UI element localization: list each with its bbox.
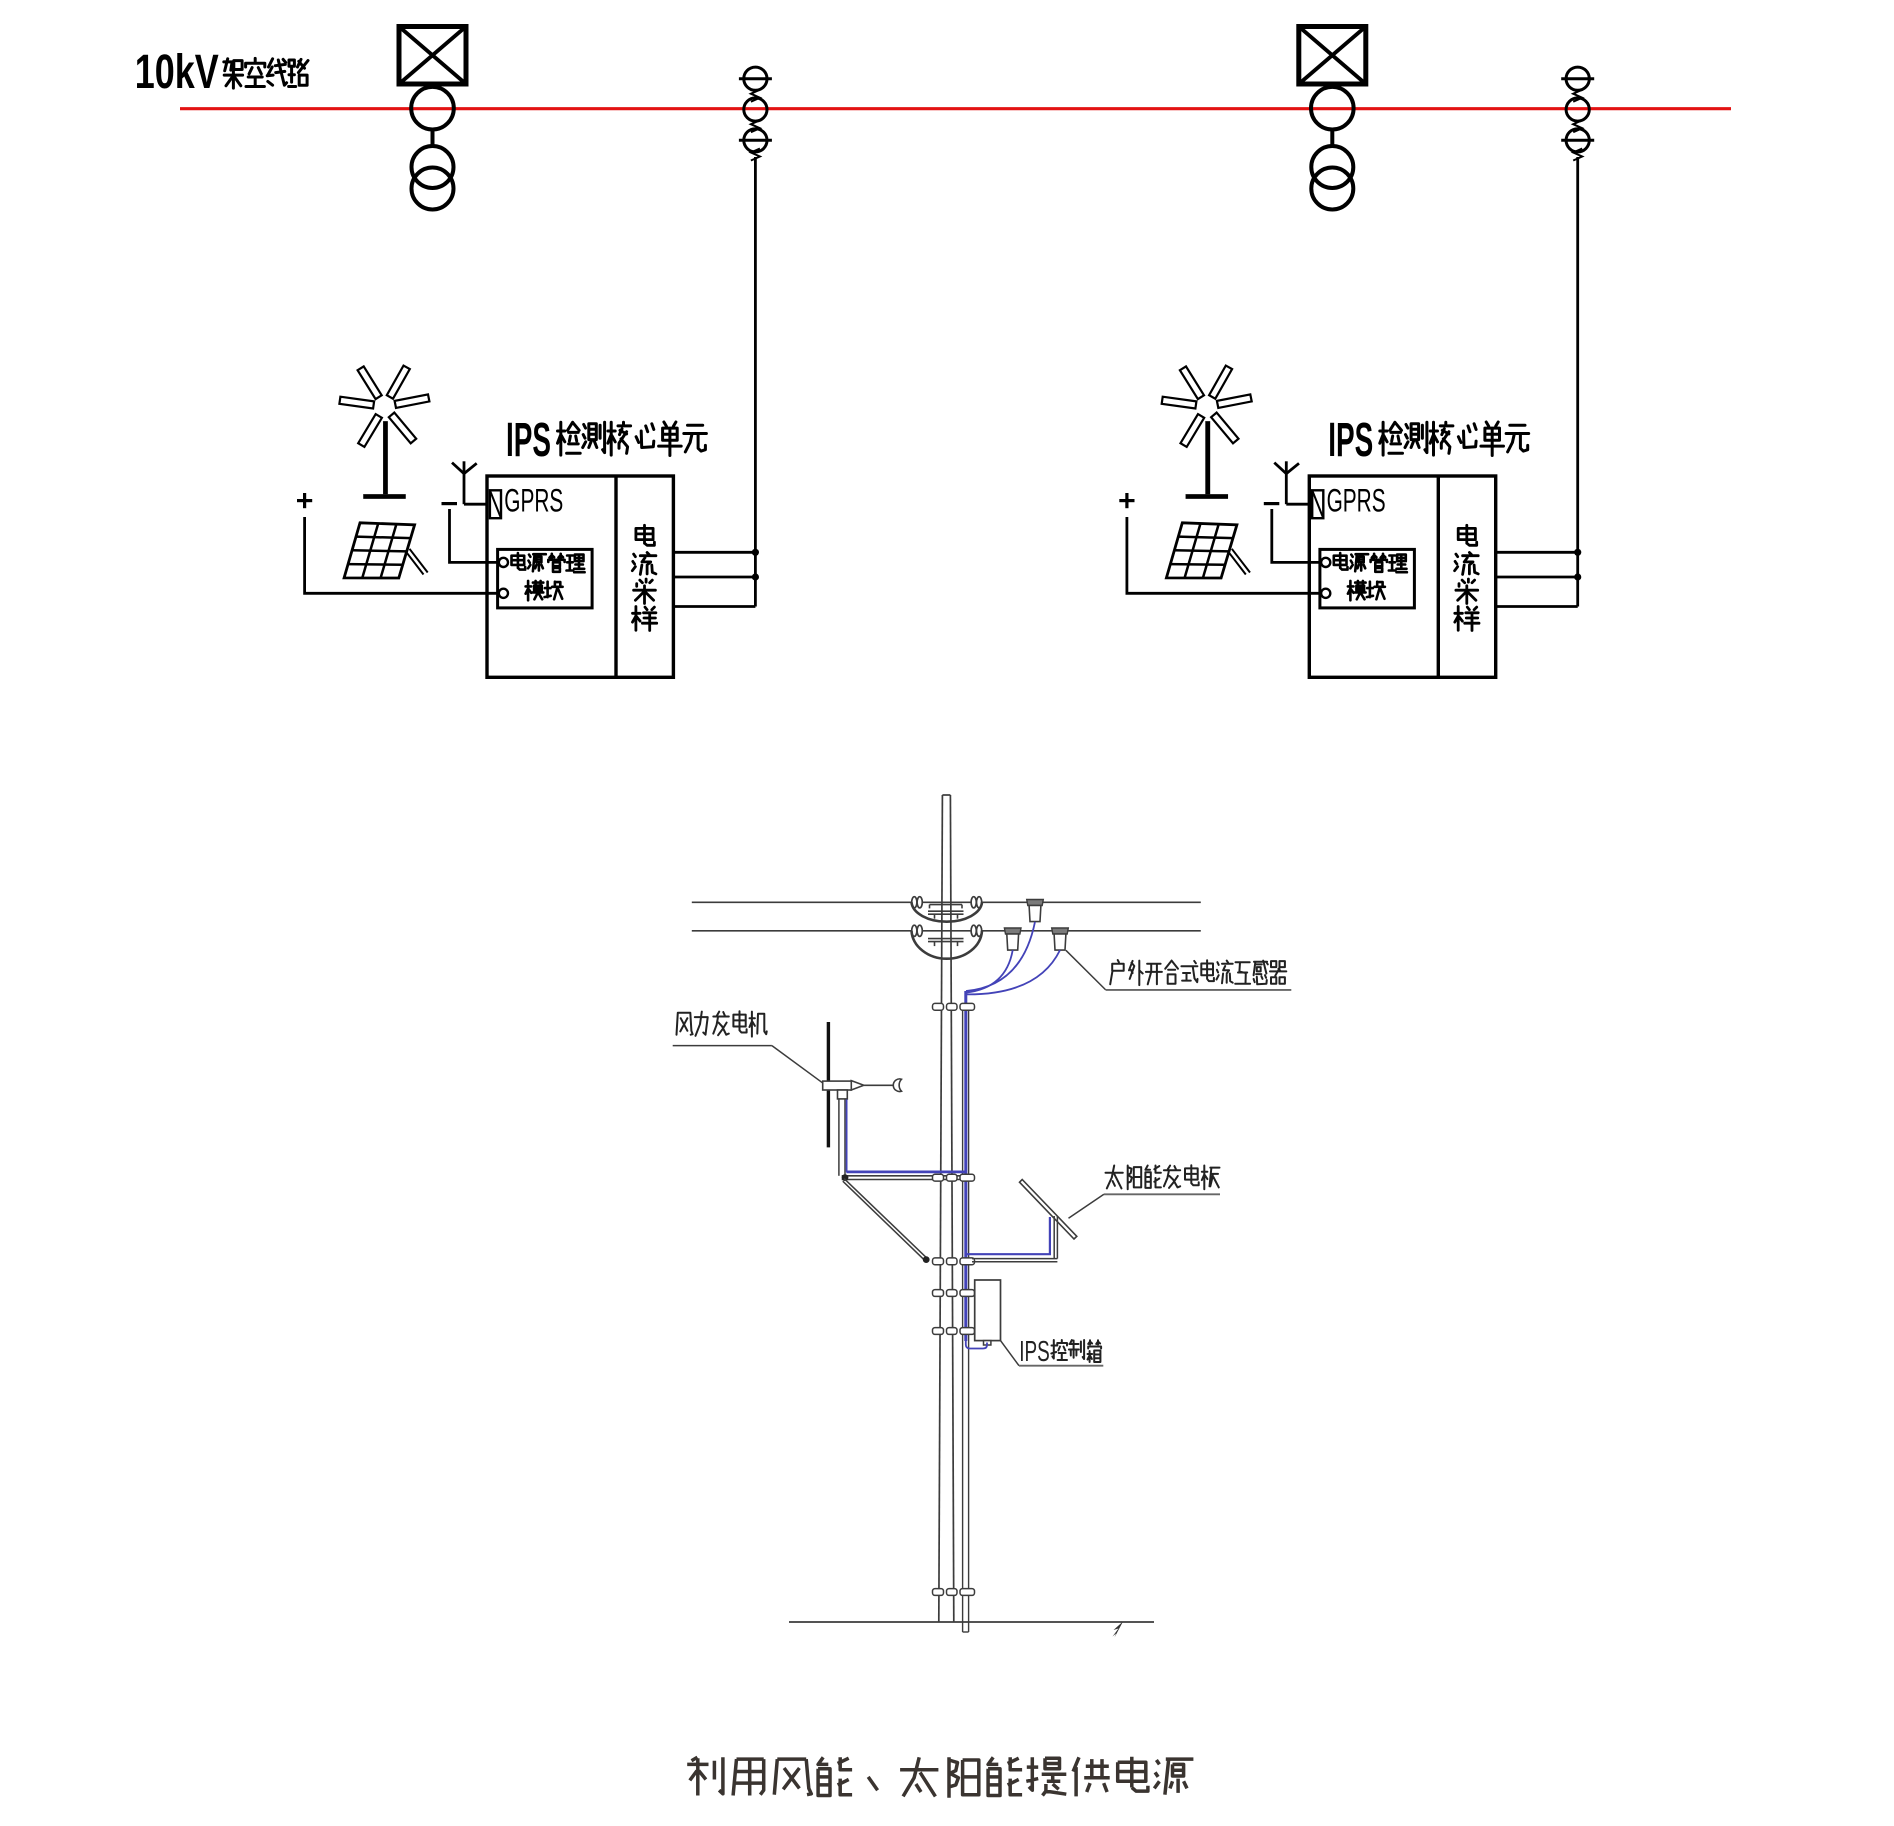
wire: CT drop to current sampling [754,157,757,607]
pole clamp band [933,1003,944,1010]
ground slope mark (bolt) [1113,1622,1124,1638]
CT sensor stack on feeder [744,67,767,90]
IPS detection core unit box [487,476,673,677]
GPRS module rect [490,490,501,518]
wind turbine symbol [1180,366,1204,399]
svg-text:GPRS: GPRS [1327,483,1386,519]
minus terminal [1264,502,1280,505]
wire: - to power module upper terminal [450,509,501,562]
power management module box [498,549,592,608]
blue wire from panel [966,1217,1050,1254]
wire: link to two-winding symbol [431,130,435,147]
label 太阳能发电板 [1106,1166,1123,1189]
IPS control box [975,1280,1001,1341]
panel support [1053,1216,1055,1259]
open-type CT cup [1052,928,1069,934]
solar panel slab [1020,1180,1077,1240]
pole clamp band [933,1328,944,1335]
transformer two-winding circles [1311,146,1353,188]
junction dots [1574,549,1581,556]
wind generator on pole [827,1022,830,1147]
wire: - to power module upper terminal [1272,509,1323,562]
blue riser conduit wire [964,991,967,1341]
电流采样 vertical label [636,525,655,545]
wire: antenna feed to unit [464,503,487,506]
pole clamp band [933,1258,944,1265]
svg-text:GPRS: GPRS [504,483,563,519]
module terminals [1321,558,1330,567]
open-type CT cup [1027,900,1044,906]
transformer two-winding circles [412,146,454,188]
transformer winding circle on line [1311,87,1354,130]
transformer: box-X symbol [399,27,466,85]
svg-text:IPS: IPS [1019,1336,1049,1368]
wire: CT drop to current sampling [1576,157,1579,607]
plus terminal [297,499,312,502]
crossarm clamp marks [930,904,963,906]
turbine mast [838,1099,840,1176]
open-type CT cup [1004,928,1021,934]
pole clamp band [933,1589,944,1596]
solar panel [344,523,415,578]
antenna [452,463,477,474]
svg-text:IPS: IPS [506,414,551,467]
blue loop into control box [966,1341,987,1349]
junction dots [752,549,759,556]
wires: sampling stubs to CT drop [673,551,755,554]
pole clamp band [933,1290,944,1297]
mount bracket [842,1175,972,1177]
transformer: box-X symbol [1299,27,1366,85]
svg-text:IPS: IPS [1328,414,1373,467]
solar panel [1166,523,1237,578]
blue wire from turbine [846,1100,848,1172]
wire: + to power module lower terminal [1127,517,1322,593]
solar panel strut [405,551,423,575]
pole (tapered) [939,795,943,1622]
wind turbine symbol [358,366,382,399]
minus terminal [442,502,458,505]
antenna [1274,463,1299,474]
power management module box [1320,549,1415,608]
overhead wires on pole [692,901,1201,903]
wire: red 10kV feeder [180,107,1731,110]
label 风力发电机 [677,1013,693,1035]
conduit tube [962,1008,964,1632]
IPS detection core unit box [1309,476,1495,677]
plus terminal [1119,499,1134,502]
wire: link to two-winding symbol [1330,130,1334,147]
wires: sampling stubs to CT drop [1496,551,1578,554]
label 户外开合式电流互感器 [1066,950,1106,990]
module terminals [499,558,508,567]
solar panel strut [1228,551,1246,575]
wire: antenna feed to unit [1286,503,1309,506]
diagonal brace [844,1179,927,1259]
blue CT leads [966,922,1035,991]
CT sensor stack on feeder [1566,67,1589,90]
GPRS module rect [1312,490,1323,518]
transformer winding circle on line [411,87,454,130]
电流采样 vertical label [1458,525,1477,545]
pole clamp band [933,1174,944,1181]
svg-text:10kV: 10kV [135,46,219,99]
caption 利用风能、太阳能提供电源 [687,1757,723,1795]
wire: + to power module lower terminal [305,517,500,593]
insulator rings [912,897,917,908]
suspension arcs [912,902,983,921]
ground line [789,1621,1154,1623]
